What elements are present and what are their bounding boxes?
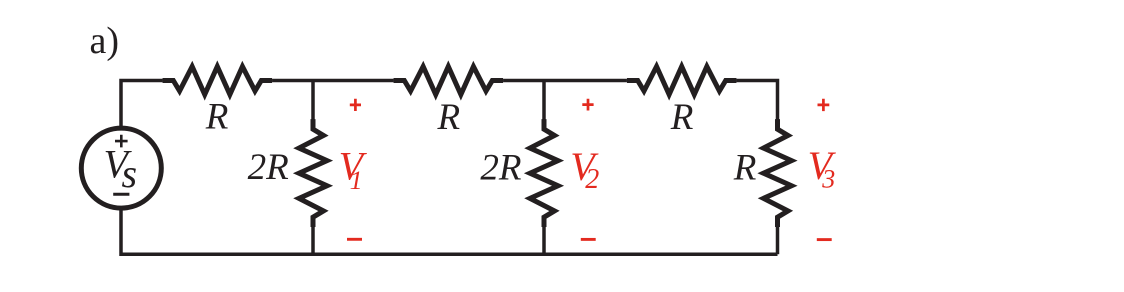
svg-text:R: R <box>436 97 460 138</box>
resistor R (series 3) <box>627 67 737 95</box>
svg-text:R: R <box>733 148 757 189</box>
wire: left edge bottom + bottom rail <box>121 207 778 254</box>
svg-text:s: s <box>122 151 138 196</box>
voltage source VS polarity minus <box>113 193 129 196</box>
svg-text:2R: 2R <box>248 147 289 188</box>
wire: node A bottom to bottom rail <box>311 226 315 255</box>
node voltage V2 minus sign <box>581 238 596 241</box>
resistor 2R (shunt at node A) <box>299 119 327 227</box>
svg-text:R: R <box>670 97 694 138</box>
svg-text:3: 3 <box>821 164 835 193</box>
node voltage V1 minus sign <box>347 238 362 241</box>
wire: node B bottom to bottom rail <box>542 226 546 255</box>
wire: top rail segment between R2 and R3 (through node B) <box>503 79 627 83</box>
wire: top rail segment between R1 and R2 (through node A) <box>272 79 394 83</box>
resistor R (series 1) <box>163 67 272 95</box>
node voltage V2 plus sign <box>582 99 593 111</box>
node voltage V3 plus sign <box>818 99 830 111</box>
node voltage V1 plus sign <box>350 99 361 111</box>
svg-text:1: 1 <box>350 166 363 195</box>
svg-text:2R: 2R <box>480 147 521 188</box>
voltage source VS (circle) <box>81 128 161 208</box>
svg-text:R: R <box>205 96 229 137</box>
svg-text:a): a) <box>90 20 120 62</box>
resistor R (shunt at node C, right edge) <box>764 119 792 227</box>
svg-text:2: 2 <box>585 164 599 195</box>
node voltage V3 minus sign <box>817 238 832 241</box>
wire: left edge top (corner to source) <box>121 81 163 130</box>
wire: right edge bottom <box>776 226 780 255</box>
resistor 2R (shunt at node B) <box>530 119 558 227</box>
voltage source VS polarity plus <box>115 135 128 148</box>
resistor R (series 2) <box>394 67 504 95</box>
wire: node A drop from top rail <box>311 81 315 121</box>
wire: node B drop from top rail <box>542 81 546 121</box>
wire: top rail right segment + right edge top <box>736 81 777 121</box>
